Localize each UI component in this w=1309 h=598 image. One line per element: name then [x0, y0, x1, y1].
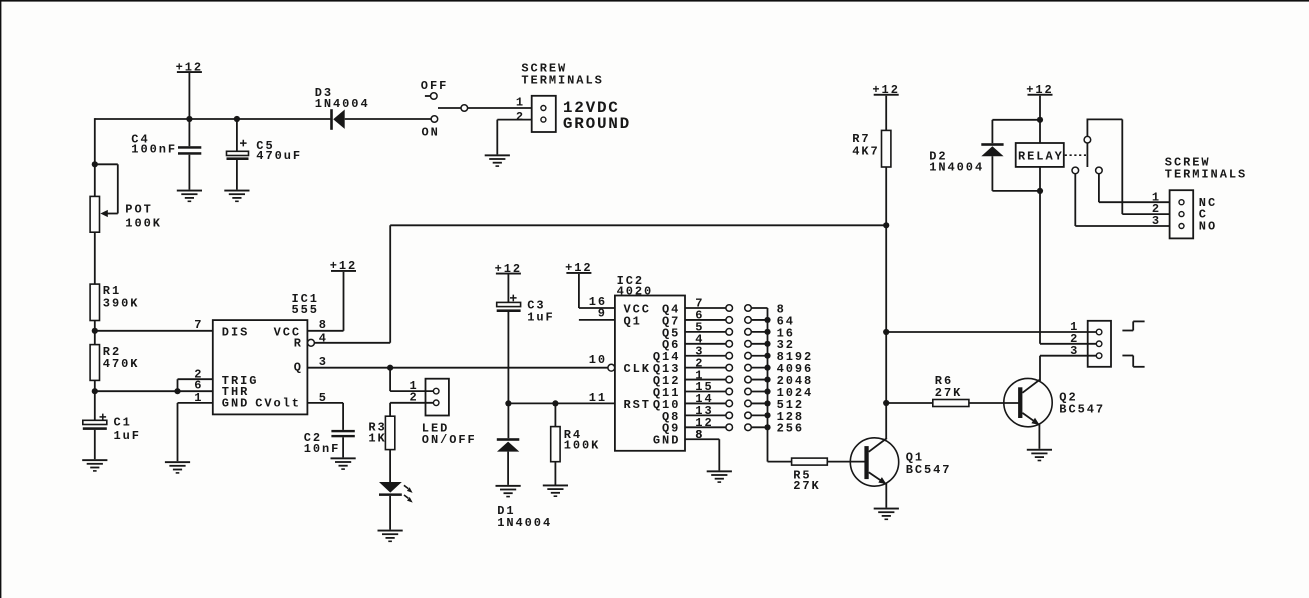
- value 1uF (C1): [114, 429, 141, 443]
- label Q13 (4020): [653, 362, 680, 376]
- jumper pin left Q8: [726, 412, 733, 419]
- value 1N4004 (D1): [497, 516, 552, 530]
- wire 555 pin4 reset net: [314, 225, 886, 342]
- value 100K (POT): [125, 216, 162, 230]
- wire switch to terminal 1: [468, 107, 532, 109]
- label Q11 (4020): [653, 386, 680, 400]
- power +12 for IC1: [330, 259, 357, 331]
- pin 2 (output connector): [1070, 332, 1079, 346]
- svg-text:RST: RST: [624, 398, 651, 412]
- jumper pin right Q13: [745, 364, 752, 371]
- value 1024 (divisor): [777, 386, 814, 400]
- pin 5 (4020 Q5): [695, 321, 704, 335]
- value 100nF: [131, 142, 177, 156]
- wire to 555 pin7 DIS: [95, 330, 213, 332]
- wire coil to output connector pin2: [1040, 191, 1096, 344]
- value BC547 (Q1): [906, 463, 952, 477]
- wire D1 top stem: [507, 403, 509, 438]
- node junction C3/D1/RST: [505, 400, 511, 406]
- node junction bus 2048: [764, 376, 770, 382]
- node junction bus 256: [764, 424, 770, 430]
- IC IC2 4020 body: [615, 296, 685, 451]
- diode D1 1N4004: [497, 438, 520, 451]
- wire R6 to Q2 base: [969, 402, 1019, 404]
- wire LED connector pin2 to R3: [390, 403, 433, 416]
- wire 4020 Q9 output: [685, 426, 726, 428]
- jumper pin right Q9: [745, 424, 752, 431]
- svg-text:C1: C1: [114, 416, 132, 430]
- ground C1: [82, 459, 107, 472]
- label TRIG: [222, 374, 259, 388]
- resistor R2: [90, 345, 99, 381]
- svg-text:TERMINALS: TERMINALS: [1165, 168, 1247, 182]
- node junction rail/C5: [234, 116, 240, 122]
- value 8192 (divisor): [777, 350, 814, 364]
- wire jumper stub Q8: [751, 414, 767, 416]
- label ON/OFF: [422, 433, 477, 447]
- pin 14 (4020 Q10): [695, 392, 713, 406]
- value 4020: [617, 285, 654, 299]
- wire 4020 Q12 output: [685, 379, 726, 381]
- jumper pin left Q6: [726, 340, 733, 347]
- label C3: [527, 299, 545, 313]
- ground C2: [331, 457, 356, 470]
- value 100K (R4): [564, 438, 601, 452]
- label Q14 (4020): [653, 350, 680, 364]
- pin 7 (555 DIS): [194, 318, 203, 332]
- svg-text:GND: GND: [653, 434, 680, 448]
- connector LED ON/OFF: [426, 379, 449, 416]
- relay NC contact: [1072, 167, 1079, 174]
- wire 4020 pin16 VCC: [579, 307, 615, 309]
- svg-text:10: 10: [589, 353, 607, 367]
- jumper pin right Q6: [745, 340, 752, 347]
- label D1: [497, 504, 515, 518]
- connector screw terminals relay: [1170, 190, 1194, 238]
- jumper pin left Q10: [726, 400, 733, 407]
- svg-text:CLK: CLK: [624, 362, 651, 376]
- label C4: [131, 132, 149, 146]
- label RST (4020): [624, 398, 651, 412]
- svg-text:NO: NO: [1199, 220, 1217, 234]
- svg-text:1uF: 1uF: [114, 429, 141, 443]
- connector pulse output: [1088, 321, 1111, 367]
- svg-text:1N4004: 1N4004: [315, 97, 370, 111]
- wire jumper stub Q4: [751, 307, 767, 309]
- ground Q2: [1027, 449, 1052, 462]
- node junction bus 512: [764, 400, 770, 406]
- wire 4020 Q10 output: [685, 402, 726, 404]
- svg-text:27K: 27K: [793, 479, 820, 493]
- wire Q1 collector vertical: [885, 225, 887, 438]
- label LED: [422, 422, 449, 436]
- jumper pin left Q14: [726, 352, 733, 359]
- wire connector pin3 to Q2 collector: [1040, 356, 1096, 381]
- label C1: [114, 416, 132, 430]
- value 1N4004 (D3): [315, 97, 370, 111]
- relay coil box: [1016, 143, 1064, 167]
- wire POT wiper: [95, 164, 118, 217]
- svg-text:DIS: DIS: [222, 326, 249, 340]
- value 10nF: [304, 442, 341, 456]
- pin 1 (output connector): [1070, 320, 1079, 334]
- value 128 (divisor): [777, 410, 804, 424]
- pulse falling-step glyph: [1122, 356, 1144, 367]
- pin 6 (555 THR): [194, 379, 203, 393]
- label TERMINALS (right): [1165, 168, 1247, 182]
- ground D1: [496, 485, 521, 498]
- value 27K (R6): [935, 386, 962, 400]
- svg-text:4020: 4020: [617, 285, 654, 299]
- node junction wiper: [92, 161, 98, 167]
- label THR: [222, 385, 249, 399]
- svg-text:ON: ON: [422, 126, 440, 140]
- value 470K: [103, 357, 140, 371]
- svg-text:555: 555: [292, 303, 319, 317]
- wire 4020 Q7 output: [685, 319, 726, 321]
- pin 9 (4020 Q1): [598, 307, 607, 321]
- wire R2 to C1: [94, 380, 96, 420]
- label VCC (555): [274, 326, 301, 340]
- wire jumper stub Q10: [751, 402, 767, 404]
- svg-text:1N4004: 1N4004: [929, 160, 984, 174]
- value 390K: [103, 297, 140, 311]
- jumper pin left Q11: [726, 388, 733, 395]
- wire 4020 Q13 output: [685, 367, 726, 369]
- wire POT to R1: [94, 232, 96, 284]
- ground C5: [224, 190, 249, 203]
- relay pole contact: [1084, 119, 1091, 167]
- svg-text:BC547: BC547: [1059, 402, 1105, 416]
- label NC: [1199, 196, 1217, 210]
- ground Q1: [874, 508, 899, 520]
- wire +12 rail to D3: [95, 118, 331, 120]
- svg-text:1uF: 1uF: [527, 311, 554, 325]
- wire D3 to ON contact: [345, 118, 431, 120]
- node junction bus 32: [764, 341, 770, 347]
- node junction R2/THR: [92, 388, 98, 394]
- svg-text:1K: 1K: [368, 432, 386, 446]
- svg-text:256: 256: [777, 422, 804, 436]
- wire pole to terminal 2: [1087, 119, 1170, 214]
- label R (555): [294, 336, 303, 350]
- wire 555 pin2 TRIG: [178, 379, 213, 391]
- wire collector to connector pin1: [886, 331, 1096, 333]
- pin 5 (555 CVolt): [319, 391, 328, 405]
- potentiometer POT body: [90, 196, 99, 232]
- jumper pin right Q5: [745, 329, 752, 336]
- resistor R6: [933, 400, 969, 407]
- svg-text:1N4004: 1N4004: [497, 516, 552, 530]
- jumper pin left Q9: [726, 424, 733, 431]
- svg-text:100K: 100K: [125, 216, 162, 230]
- pin 3 (relay terminal): [1152, 214, 1161, 228]
- label C: [1199, 208, 1208, 222]
- label 12VDC: [563, 99, 620, 117]
- resistor R3: [385, 416, 394, 449]
- transistor Q1 BC547: [850, 438, 898, 486]
- pin 12 (4020 Q9): [695, 416, 713, 430]
- svg-text:100nF: 100nF: [131, 142, 177, 156]
- wire R7 to collector net: [885, 167, 887, 225]
- svg-text:11: 11: [589, 391, 607, 405]
- jumper pin right Q14: [745, 352, 752, 359]
- wire RST net: [508, 402, 615, 404]
- pin 2 (4020 Q13): [695, 356, 704, 370]
- svg-text:2: 2: [516, 110, 525, 124]
- jumper pin right Q10: [745, 400, 752, 407]
- wire LED to ground: [389, 496, 391, 530]
- pin 10 (4020 CLK): [589, 353, 607, 367]
- capacitor C1 (electrolytic): [83, 414, 107, 430]
- svg-text:Q: Q: [294, 361, 303, 375]
- diode D3 1N4004: [330, 109, 345, 130]
- value 27K (R5): [793, 479, 820, 493]
- label GROUND: [563, 115, 631, 133]
- node junction bus 4096: [764, 365, 770, 371]
- wire D1 to ground: [507, 452, 509, 485]
- svg-text:7: 7: [194, 318, 203, 332]
- pulse rising-step glyph: [1122, 321, 1144, 330]
- label CVolt: [255, 396, 301, 410]
- node junction R1/R2/pin7: [92, 328, 98, 334]
- pin 3 (output connector): [1070, 344, 1079, 358]
- wire 4020 Q8 output: [685, 414, 726, 416]
- label ON: [422, 126, 440, 140]
- svg-text:RELAY: RELAY: [1018, 150, 1064, 164]
- switch OFF contact: [425, 93, 437, 100]
- wire Q1 emitter to ground: [885, 484, 887, 507]
- wire jumper stub Q11: [751, 391, 767, 393]
- svg-text:CVolt: CVolt: [255, 396, 301, 410]
- label R7: [852, 132, 870, 146]
- pin 1 (12VDC terminal): [516, 95, 525, 109]
- wire 4020 Q6 output: [685, 343, 726, 345]
- pin 16 (4020 VCC): [589, 295, 607, 309]
- value 4096 (divisor): [777, 362, 814, 376]
- label VCC (4020): [624, 302, 651, 316]
- value 2048 (divisor): [777, 374, 814, 388]
- node junction +12/D2/coil: [1037, 117, 1043, 123]
- jumper pin right Q12: [745, 376, 752, 383]
- wire C2 bottom stem: [342, 437, 344, 457]
- transistor Q2 BC547: [1004, 378, 1052, 426]
- label Q1 (4020): [624, 314, 642, 328]
- pin 2 (LED connector): [410, 391, 419, 405]
- svg-text:9: 9: [598, 307, 607, 321]
- pin 1 (555 GND): [194, 391, 203, 405]
- node junction bus 8192: [764, 353, 770, 359]
- node junction collector/row1: [883, 329, 889, 335]
- label R6: [935, 374, 953, 388]
- node junction TRIG/THR: [174, 388, 180, 394]
- label NO: [1199, 220, 1217, 234]
- pin 1 (LED connector): [410, 379, 419, 393]
- wire relay coil bottom stem: [1039, 167, 1041, 191]
- power +12 for IC2: [565, 261, 592, 308]
- jumper pin left Q7: [726, 317, 733, 324]
- node junction bus 64: [764, 317, 770, 323]
- pin 2 (relay terminal): [1152, 202, 1161, 216]
- label Q1: [906, 451, 924, 465]
- label R1: [103, 284, 121, 298]
- wire jumper stub Q14: [751, 355, 767, 357]
- wire divisor select bus: [768, 308, 792, 462]
- ground 555 pin1: [165, 461, 190, 474]
- label IC1: [292, 292, 319, 306]
- wire Q2 emitter to ground: [1038, 425, 1040, 449]
- wire jumper stub Q9: [751, 426, 767, 428]
- jumper pin left Q12: [726, 376, 733, 383]
- value 4K7: [852, 145, 879, 159]
- label Q4 (4020): [662, 302, 680, 316]
- jumper pin left Q4: [726, 305, 733, 312]
- label Q6 (4020): [662, 338, 680, 352]
- pin 2 (GROUND terminal): [516, 110, 525, 124]
- node junction rail/C4: [186, 116, 192, 122]
- wire 555 pin3 Q to 4020 CLK: [307, 367, 608, 369]
- label Q12 (4020): [653, 374, 680, 388]
- value 1N4004 (D2): [929, 160, 984, 174]
- IC IC1 555 body: [213, 320, 308, 414]
- svg-text:R: R: [294, 336, 303, 350]
- label D3: [315, 86, 333, 100]
- svg-text:3: 3: [1152, 214, 1161, 228]
- relay actuation dotted link: [1065, 154, 1086, 156]
- wire THR to 555 pin6: [95, 390, 213, 392]
- wire 4020 pin8 GND to ground: [685, 439, 719, 470]
- wire R4 top stem: [554, 403, 556, 426]
- label POT: [125, 203, 152, 217]
- label C5: [256, 139, 274, 153]
- svg-text:GND: GND: [222, 396, 249, 410]
- node junction bus 1024: [764, 388, 770, 394]
- svg-text:POT: POT: [125, 203, 152, 217]
- label Q10 (4020): [653, 398, 680, 412]
- wire 555 pin5 CVolt: [307, 403, 343, 430]
- svg-text:10nF: 10nF: [304, 442, 341, 456]
- value 32 (divisor): [777, 338, 795, 352]
- wire 4020 Q14 output: [685, 355, 726, 357]
- label D2: [929, 150, 947, 164]
- pin 13 (4020 Q8): [695, 404, 713, 418]
- label OFF: [421, 79, 448, 93]
- wire R4 to ground: [554, 462, 556, 485]
- node junction collector/R6: [883, 400, 889, 406]
- value 1uF (C3): [527, 311, 554, 325]
- label R5: [793, 468, 811, 482]
- node junction coil/Q2 net: [1037, 188, 1043, 194]
- connector screw terminals 12VDC: [532, 96, 556, 132]
- power +12 for relay: [1026, 83, 1053, 120]
- svg-text:27K: 27K: [935, 386, 962, 400]
- value 64 (divisor): [777, 314, 795, 328]
- pin 15 (4020 Q11): [695, 380, 713, 394]
- wire C3 to RST net: [507, 312, 509, 403]
- ground LED: [378, 530, 403, 543]
- wire C5 top stem: [236, 119, 238, 151]
- wire 555 pin8 VCC: [307, 330, 343, 332]
- value 470uF: [256, 149, 302, 163]
- value 512 (divisor): [777, 398, 804, 412]
- relay NO contact: [1096, 167, 1103, 174]
- svg-text:ON/OFF: ON/OFF: [422, 433, 477, 447]
- resistor R7: [882, 130, 891, 167]
- jumper pin left Q5: [726, 329, 733, 336]
- pin 8 (4020 GND): [695, 428, 704, 442]
- resistor R4: [551, 427, 560, 462]
- wire 4020 pin9 Q1 stub: [579, 319, 615, 321]
- label CLK (4020): [624, 362, 651, 376]
- svg-text:470uF: 470uF: [256, 149, 302, 163]
- pin 11 (4020 RST): [589, 391, 607, 405]
- ground C4: [177, 190, 202, 203]
- label DIS: [222, 326, 249, 340]
- label R4: [564, 428, 582, 442]
- pin 8 (4020 GND): [695, 428, 704, 442]
- jumper pin right Q11: [745, 388, 752, 395]
- capacitor C3 (electrolytic): [497, 295, 521, 312]
- jumper pin right Q7: [745, 317, 752, 324]
- pin 4 (4020 Q6): [695, 332, 704, 346]
- capacitor C5 (electrolytic): [227, 140, 249, 160]
- switch common pole: [438, 105, 468, 112]
- pin 8 (555 VCC): [319, 318, 328, 332]
- wire 555 pin1 GND to ground: [178, 403, 213, 461]
- ground R4: [543, 485, 568, 498]
- svg-text:1: 1: [516, 95, 525, 109]
- label Q5 (4020): [662, 326, 680, 340]
- capacitor C2: [331, 430, 354, 437]
- label Q2: [1059, 391, 1077, 405]
- wire R5 to Q1 base: [827, 461, 865, 463]
- resistor R5: [792, 458, 828, 465]
- power +12 for R7: [872, 83, 899, 130]
- wire 4020 Q11 output: [685, 391, 726, 393]
- svg-text:100K: 100K: [564, 438, 601, 452]
- wire C1 bottom stem: [94, 430, 96, 459]
- wire jumper stub Q6: [751, 343, 767, 345]
- pin 6 (4020 Q7): [695, 309, 704, 323]
- jumper pin right Q8: [745, 412, 752, 419]
- pin 2 (555 TRIG): [194, 367, 203, 381]
- LED diode: [379, 482, 413, 503]
- value 8 (divisor): [777, 302, 786, 316]
- wire +12 to D2 cathode: [992, 120, 1040, 143]
- ground 4020: [707, 470, 732, 483]
- label GND (555): [222, 396, 249, 410]
- label Q (555): [294, 361, 303, 375]
- wire NC contact to terminal 3: [1075, 174, 1169, 226]
- svg-text:TERMINALS: TERMINALS: [521, 73, 603, 87]
- jumper pin right Q4: [745, 305, 752, 312]
- svg-text:4K7: 4K7: [852, 145, 879, 159]
- power +12 for C3: [495, 262, 522, 303]
- label SCREW (right): [1165, 156, 1211, 170]
- jumper pin left Q13: [726, 364, 733, 371]
- wire terminal 2 to ground: [497, 120, 531, 155]
- pin 4 (555 R): [319, 332, 328, 346]
- node junction Q/LED: [387, 365, 393, 371]
- wire NO contact to terminal 1: [1099, 174, 1170, 203]
- pin 1 (4020 Q12): [695, 368, 704, 382]
- wire C4 bottom stem: [188, 155, 190, 190]
- svg-text:OFF: OFF: [421, 79, 448, 93]
- wire jumper stub Q13: [751, 367, 767, 369]
- value 256 (divisor): [777, 422, 804, 436]
- wire jumper stub Q7: [751, 319, 767, 321]
- label Q7 (4020): [662, 314, 680, 328]
